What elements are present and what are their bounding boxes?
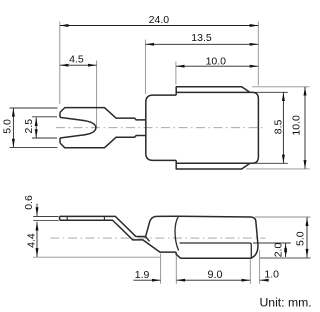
dimension 1.0 [260, 279, 268, 281]
side view sleeve [175, 216, 258, 258]
svg-text:1.9: 1.9 [135, 269, 150, 281]
svg-text:13.5: 13.5 [191, 32, 212, 44]
svg-text:24.0: 24.0 [149, 14, 170, 26]
svg-text:5.0: 5.0 [295, 231, 307, 246]
top view body (sleeve) [146, 87, 259, 169]
extension lines 0.6 [33, 217, 58, 221]
dimension 5.0 left [12, 108, 14, 147]
dimension 10.0 horizontal [176, 65, 258, 67]
svg-text:2.0: 2.0 [273, 243, 285, 258]
dimension 24.0 [60, 25, 258, 27]
dimension 13.5 [145, 43, 258, 45]
svg-text:10.0: 10.0 [291, 115, 303, 136]
extension line 2.0 [253, 242, 291, 244]
dimension 5.0 right [306, 217, 308, 257]
dimension 4.4 [36, 222, 38, 257]
extension lines 8.5 [10, 92, 288, 163]
svg-text:8.5: 8.5 [272, 119, 284, 134]
extension line bottom right [260, 257, 311, 259]
dimension 10.0 right [304, 87, 306, 169]
fork slot [60, 117, 96, 138]
svg-text:10.0: 10.0 [206, 56, 227, 68]
svg-text:4.5: 4.5 [69, 53, 84, 65]
dimension 2.0 [285, 244, 287, 258]
svg-text:2.5: 2.5 [23, 119, 35, 134]
side view tab (fork side) [60, 216, 179, 252]
dimension 2.5 [35, 117, 37, 137]
side view crimp barrel [145, 216, 178, 238]
svg-text:4.4: 4.4 [25, 233, 37, 248]
svg-text:Unit: mm.: Unit: mm. [260, 296, 312, 310]
top view crimp tab [176, 87, 250, 95]
dimension 1.9 [134, 279, 161, 281]
dimension 0.6 [36, 204, 38, 216]
centerline top view [56, 127, 265, 129]
svg-text:1.0: 1.0 [264, 269, 279, 281]
svg-text:9.0: 9.0 [207, 269, 222, 281]
dimension 8.5 [282, 92, 284, 163]
top view fork outline [60, 108, 146, 148]
svg-text:0.6: 0.6 [23, 195, 35, 210]
dimension 4.5 [60, 64, 97, 66]
sleeve inner step [180, 243, 252, 258]
centerline side view [50, 237, 265, 239]
dimension 9.0 [177, 279, 251, 281]
extension lines side view [33, 217, 310, 284]
extension lines top view [60, 22, 310, 169]
sleeve left rim [175, 216, 179, 250]
svg-text:5.0: 5.0 [1, 119, 13, 134]
